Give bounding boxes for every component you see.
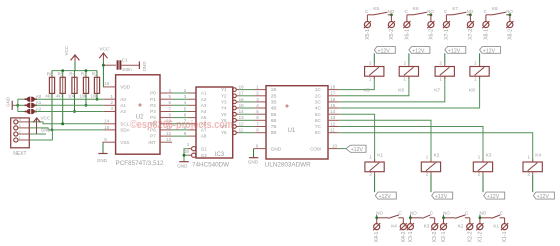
svg-text:4B: 4B — [271, 106, 277, 111]
svg-text:3: 3 — [19, 123, 21, 128]
svg-text:A1: A1 — [201, 91, 207, 96]
svg-text:Y2: Y2 — [221, 93, 227, 98]
supply tag +12V (K1) — [375, 192, 396, 199]
svg-text:+12V: +12V — [448, 48, 461, 54]
svg-text:R6: R6 — [47, 72, 53, 77]
wire VCC1 to VDD pin — [102, 65, 104, 87]
svg-text:15: 15 — [330, 103, 336, 108]
svg-text:+12V: +12V — [487, 194, 500, 200]
svg-text:K1: K1 — [493, 223, 499, 228]
svg-text:X4-1: X4-1 — [374, 231, 380, 242]
wire K1 coil to +12V — [374, 172, 376, 175]
wire +12V to K8 coil — [479, 53, 481, 64]
wire U1 3C to relay K7 coil — [339, 76, 445, 102]
svg-text:X8-2: X8-2 — [507, 29, 513, 40]
svg-text:+12V: +12V — [537, 194, 550, 200]
svg-text:16: 16 — [104, 81, 110, 86]
svg-text:P3: P3 — [150, 109, 156, 114]
wire U2 P0 to IC3 A1 — [160, 92, 172, 94]
ground symbol U2 — [98, 153, 107, 155]
wire IC3 Y4 to U1 4B — [233, 106, 237, 110]
terminal X1-1 — [504, 218, 506, 224]
svg-text:8B: 8B — [271, 130, 277, 135]
wire R5 lead down — [62, 93, 64, 123]
svg-text:3C: 3C — [315, 100, 322, 105]
svg-text:1C: 1C — [315, 87, 322, 92]
wire net A0 to U2 — [35, 98, 104, 100]
svg-text:2C: 2C — [315, 93, 322, 98]
svg-text:R4: R4 — [69, 72, 75, 77]
svg-text:5C: 5C — [315, 112, 322, 117]
junction K6 NO — [430, 13, 433, 16]
junction VCC1 node — [102, 64, 105, 67]
supply tag +12V (K4) — [533, 192, 554, 199]
svg-text:18: 18 — [239, 85, 245, 90]
terminal X7-1 — [445, 15, 447, 22]
wire IC3 Y8 to U1 8B — [233, 131, 237, 135]
wire R6 lead down — [51, 93, 53, 129]
svg-text:K7: K7 — [434, 87, 440, 93]
svg-text:U1: U1 — [288, 128, 296, 134]
origin cross U1 — [285, 104, 289, 108]
svg-text:19: 19 — [184, 149, 190, 154]
svg-text:A1: A1 — [120, 103, 126, 108]
svg-text:IC3: IC3 — [215, 152, 225, 158]
svg-text:X7-2: X7-2 — [468, 29, 474, 40]
svg-text:13: 13 — [239, 115, 245, 120]
terminal X8-1 — [485, 15, 487, 22]
svg-text:G1: G1 — [201, 146, 208, 151]
ground symbol U1 — [249, 157, 258, 159]
svg-text:COM: COM — [310, 146, 321, 151]
svg-text:NEXT: NEXT — [13, 151, 26, 157]
svg-text:A0: A0 — [36, 94, 42, 99]
svg-text:ULN2803ADWR: ULN2803ADWR — [265, 161, 311, 168]
supply tag +12V (COM) — [346, 145, 366, 152]
svg-text:NO: NO — [467, 9, 474, 14]
svg-text:18: 18 — [330, 85, 336, 90]
junction K1 NO — [479, 216, 482, 219]
svg-text:X4-2: X4-2 — [401, 231, 407, 242]
wire U2 P4 to IC3 A5 — [160, 117, 172, 119]
wire U1 7C to relay K3 coil — [339, 127, 483, 163]
wire R4 lead down — [74, 93, 76, 111]
svg-text:13: 13 — [166, 137, 172, 142]
wire G1-G2 to ground — [184, 149, 187, 162]
svg-text:K5: K5 — [373, 6, 379, 11]
wire R3 lead down — [85, 93, 87, 105]
resistor R4 10k — [74, 71, 76, 78]
junction K3 NO — [409, 216, 412, 219]
svg-text:14: 14 — [330, 109, 336, 114]
wire NEXT pin4 to SCL — [30, 122, 104, 124]
wire U2 P7 to IC3 A8 — [160, 135, 172, 137]
svg-text:A2: A2 — [36, 106, 42, 111]
svg-text:3B: 3B — [271, 100, 277, 105]
svg-text:A3: A3 — [201, 103, 207, 108]
svg-text:X5-2: X5-2 — [389, 29, 395, 40]
terminal X5-1 — [366, 15, 368, 22]
svg-text:GND: GND — [97, 158, 108, 163]
wire K4 coil to +12V — [532, 172, 534, 175]
svg-text:K4: K4 — [535, 153, 541, 159]
svg-text:K2: K2 — [458, 223, 464, 228]
wire U2 P6 to IC3 A7 — [160, 129, 172, 131]
wire NEXT pin3 to SDA — [30, 128, 104, 130]
svg-text:R2: R2 — [92, 72, 98, 77]
terminal X3-2 — [434, 218, 436, 224]
svg-text:GND: GND — [142, 62, 147, 72]
svg-text:+12V: +12V — [379, 194, 392, 200]
wire R2 lead down — [96, 93, 98, 99]
wire K2 coil to +12V — [430, 172, 432, 175]
svg-text:X3-1: X3-1 — [408, 231, 414, 242]
solder jumper SJ (A0) — [18, 98, 26, 100]
svg-text:15: 15 — [239, 103, 245, 108]
origin cross U2 — [138, 103, 142, 107]
svg-text:K6: K6 — [413, 6, 419, 11]
supply tag +12V (K3) — [484, 192, 505, 199]
wire U1 5C to relay K1 coil — [339, 114, 375, 162]
junction K7 NO — [469, 13, 472, 16]
svg-text:Y1: Y1 — [221, 87, 227, 92]
svg-text:X7-1: X7-1 — [444, 29, 450, 40]
svg-text:GND: GND — [6, 97, 11, 107]
svg-text:VDD: VDD — [120, 85, 130, 90]
wire U1 1C to relay K5 coil — [339, 76, 375, 89]
capacitor C1 100n — [103, 64, 116, 66]
supply tag +12V (K5) — [374, 47, 395, 54]
svg-text:Y4: Y4 — [221, 106, 227, 111]
svg-text:+12V: +12V — [378, 48, 391, 54]
wire IC3 Y3 to U1 3B — [233, 100, 237, 104]
IC U2 PCF8574T — [116, 75, 160, 154]
wire IC3 Y5 to U1 5B — [233, 112, 237, 116]
svg-text:X6-1: X6-1 — [404, 29, 410, 40]
wire IC3 Y1 to U1 1B — [233, 88, 237, 92]
resistor R6 4k7 — [51, 71, 53, 78]
svg-text:NO: NO — [506, 9, 513, 14]
svg-text:X3-2: X3-2 — [432, 231, 438, 242]
solder jumper SJ (A1) — [18, 104, 26, 106]
svg-text:A4: A4 — [201, 109, 207, 114]
svg-text:K8: K8 — [469, 87, 475, 93]
junction on VCC rail at R3 — [85, 69, 88, 72]
junction K4 NO — [375, 216, 378, 219]
svg-text:VCC: VCC — [64, 45, 69, 55]
solder jumper SJ (A2) — [18, 111, 26, 113]
svg-text:17: 17 — [330, 91, 336, 96]
resistor R5 4k7 — [62, 71, 64, 78]
svg-text:PCF8574T/3,512: PCF8574T/3,512 — [116, 160, 164, 167]
IC3 pin G1 (1) — [192, 147, 196, 151]
svg-text:74HC540DW: 74HC540DW — [192, 161, 229, 168]
svg-text:A1: A1 — [36, 100, 42, 105]
terminal X2-1 — [443, 218, 445, 224]
junction G2 node — [183, 154, 186, 157]
terminal X8-2 — [509, 15, 511, 22]
wire net A2 to U2 — [35, 111, 104, 113]
svg-text:G2: G2 — [201, 153, 208, 158]
wire U1 6C to relay K2 coil — [339, 120, 431, 162]
wire jumper common — [17, 99, 19, 111]
svg-text:X6-2: X6-2 — [428, 29, 434, 40]
wire COM to +12V — [339, 148, 346, 150]
svg-text:A0: A0 — [120, 97, 126, 102]
svg-text:R3: R3 — [81, 72, 87, 77]
wire U1 8C to relay K4 coil — [339, 133, 533, 162]
svg-text:NO: NO — [388, 9, 395, 14]
svg-text:K5: K5 — [364, 87, 370, 93]
svg-text:K6: K6 — [398, 87, 404, 93]
wire U1 4C to relay K8 coil — [339, 76, 480, 108]
svg-text:X1-1: X1-1 — [502, 231, 508, 242]
svg-text:A2: A2 — [201, 97, 207, 102]
svg-text:GND: GND — [41, 127, 52, 132]
svg-text:7C: 7C — [315, 124, 322, 129]
supply tag +12V (K6) — [409, 47, 430, 54]
svg-text:+12V: +12V — [435, 194, 448, 200]
terminal X6-1 — [406, 15, 408, 22]
svg-text:P7: P7 — [150, 134, 156, 139]
supply tag +12V (K8) — [480, 47, 501, 54]
svg-text:NO: NO — [410, 211, 417, 216]
power symbol VCC1 — [99, 53, 107, 58]
svg-text:X2-2: X2-2 — [467, 231, 473, 242]
terminal X4-1 — [376, 218, 378, 224]
power symbol VCC (NEXT pin2) — [30, 133, 46, 135]
IC IC3 74HC540DW — [196, 87, 233, 158]
terminal X4-2 — [402, 218, 404, 224]
wire U2 P3 to IC3 A4 — [160, 111, 172, 113]
wire IC3 Y2 to U1 2B — [233, 94, 237, 98]
svg-text:8C: 8C — [315, 130, 322, 135]
ground symbol at C1 — [138, 61, 140, 69]
svg-text:A2: A2 — [120, 109, 126, 114]
svg-text:NO: NO — [443, 211, 450, 216]
svg-text:P1: P1 — [150, 97, 156, 102]
svg-text:R5: R5 — [58, 72, 64, 77]
connector J1 NEXT — [11, 118, 30, 148]
power symbol VCC (left) — [71, 55, 80, 61]
svg-text:VCC´: VCC´ — [100, 46, 112, 51]
junction on VCC rail at R5 — [61, 69, 64, 72]
svg-text:11: 11 — [239, 128, 244, 133]
svg-text:K4: K4 — [391, 223, 397, 228]
junction K5 NO — [390, 13, 393, 16]
svg-text:14: 14 — [239, 109, 245, 114]
junction GND to jumpers — [16, 104, 19, 107]
svg-text:6B: 6B — [271, 118, 277, 123]
wire U2 P2 to IC3 A3 — [160, 104, 172, 106]
svg-text:Y3: Y3 — [221, 100, 227, 105]
wire +12V to K7 coil — [444, 53, 446, 64]
wire U2 P1 to IC3 A2 — [160, 98, 172, 100]
supply tag +12V (K7) — [445, 47, 466, 54]
svg-text:+12V: +12V — [412, 48, 425, 54]
wire NEXT pin1 to SDA node — [30, 130, 52, 140]
svg-text:7B: 7B — [271, 124, 277, 129]
terminal X2-2 — [469, 218, 471, 224]
svg-text:16: 16 — [330, 97, 336, 102]
svg-text:5B: 5B — [271, 112, 277, 117]
terminal X1-2 — [479, 218, 481, 224]
wire K3 coil to +12V — [482, 172, 484, 175]
svg-text:A8: A8 — [201, 134, 207, 139]
svg-text:©esp8266-projects.com: ©esp8266-projects.com — [130, 119, 233, 131]
svg-text:1: 1 — [19, 135, 21, 140]
terminal X3-1 — [409, 218, 411, 224]
svg-text:SCL: SCL — [120, 121, 129, 126]
svg-text:4C: 4C — [315, 106, 322, 111]
svg-text:6C: 6C — [315, 118, 322, 123]
wire U1 GND to ground — [253, 149, 255, 158]
svg-text:K2: K2 — [434, 153, 440, 159]
wire VSS to ground — [102, 142, 105, 153]
terminal X7-2 — [469, 15, 471, 22]
junction R5 on net — [61, 122, 64, 125]
svg-text:K7: K7 — [452, 6, 458, 11]
junction R6 on net — [51, 129, 54, 132]
svg-text:K1: K1 — [377, 153, 383, 159]
svg-text:X5-1: X5-1 — [365, 29, 371, 40]
IC3 pin G2 (19) — [192, 153, 196, 157]
svg-text:12: 12 — [330, 121, 336, 126]
wire +12V to K5 coil — [373, 53, 375, 64]
svg-text:+12V: +12V — [351, 147, 364, 153]
svg-text:C1: C1 — [122, 58, 128, 63]
svg-text:2: 2 — [19, 129, 21, 134]
svg-text:X8-1: X8-1 — [483, 29, 489, 40]
junction K8 NO — [509, 13, 512, 16]
junction K2 NO — [442, 216, 445, 219]
supply tag +12V (K2) — [432, 192, 453, 199]
junction R5 SCL — [61, 122, 64, 125]
svg-text:NO: NO — [376, 211, 383, 216]
wire net A1 to U2 — [35, 104, 104, 106]
svg-text:GND: GND — [248, 159, 259, 164]
U2 pin 13 INT stub — [160, 141, 172, 143]
svg-text:X1-2: X1-2 — [477, 231, 483, 242]
terminal X6-2 — [430, 15, 432, 22]
junction R4 on net — [73, 110, 76, 113]
svg-text:VCC: VCC — [41, 116, 51, 121]
svg-text:NO: NO — [427, 9, 434, 14]
svg-text:NO: NO — [480, 211, 487, 216]
wire IC3 Y7 to U1 7B — [233, 125, 237, 129]
wire +12V to K6 coil — [408, 53, 410, 64]
svg-text:13: 13 — [330, 115, 336, 120]
wire VCC rail to resistor tops — [52, 70, 97, 72]
svg-text:P2: P2 — [150, 103, 156, 108]
resistor R3 10k — [85, 71, 87, 78]
svg-text:14: 14 — [104, 119, 110, 124]
svg-text:K3: K3 — [486, 153, 492, 159]
svg-text:P0: P0 — [150, 91, 156, 96]
resistor R2 10k — [96, 71, 98, 78]
svg-text:12: 12 — [166, 131, 172, 136]
svg-text:K3: K3 — [424, 223, 430, 228]
wire U2 P5 to IC3 A6 — [160, 123, 172, 125]
svg-text:Y5: Y5 — [221, 112, 227, 117]
svg-text:11: 11 — [330, 128, 335, 133]
IC U1 ULN2803ADWR — [266, 86, 328, 159]
wire U1 2C to relay K6 coil — [339, 76, 409, 96]
svg-text:K8: K8 — [492, 6, 498, 11]
svg-text:VSS: VSS — [120, 140, 129, 145]
svg-text:16: 16 — [239, 97, 245, 102]
svg-text:17: 17 — [239, 91, 245, 96]
svg-text:GND: GND — [177, 163, 188, 168]
svg-text:+12V: +12V — [483, 48, 496, 54]
svg-text:100n: 100n — [122, 67, 133, 72]
svg-text:GND: GND — [271, 146, 282, 151]
svg-text:10: 10 — [332, 143, 338, 148]
svg-text:12: 12 — [239, 121, 245, 126]
junction R2 on net — [96, 98, 99, 101]
ground symbol IC3 — [179, 161, 188, 163]
svg-text:15: 15 — [104, 125, 110, 130]
svg-text:2B: 2B — [271, 93, 277, 98]
svg-text:INT: INT — [148, 140, 156, 145]
wire IC3 Y6 to U1 6B — [233, 119, 237, 123]
svg-text:X2-1: X2-1 — [441, 231, 447, 242]
junction R3 on net — [85, 104, 88, 107]
svg-text:1B: 1B — [271, 87, 277, 92]
terminal X5-2 — [390, 15, 392, 22]
